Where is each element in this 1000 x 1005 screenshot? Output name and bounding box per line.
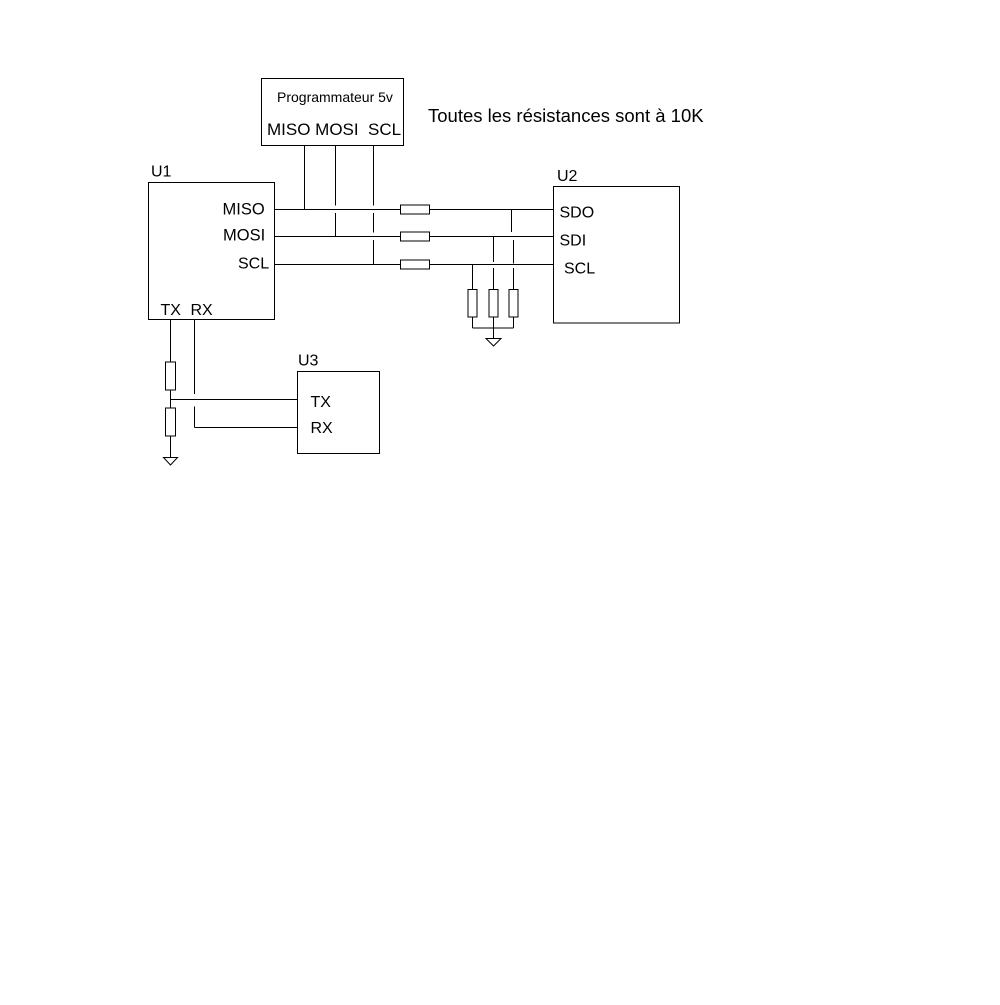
svg-text:RX: RX [191, 302, 214, 319]
wire ground stem (pullup group) [493, 328, 495, 339]
wire R4 to TX junction [170, 390, 172, 400]
resistor R1h body (MISO line) [401, 205, 430, 214]
wire TX net to U3 [171, 399, 298, 401]
IC U2 box [554, 187, 680, 324]
svg-text:SDI: SDI [560, 233, 587, 250]
resistor R2h body (MOSI line) [401, 232, 430, 241]
programmer P1 box [262, 79, 404, 146]
IC U3 box [298, 372, 380, 454]
wire pullup R2v feed from SDI net [493, 237, 495, 263]
resistor R3h body (SCL line) [401, 260, 430, 269]
wire MOSI net: R2h to U2 SDI pin [430, 236, 554, 238]
ground symbol (R5) [164, 458, 178, 466]
svg-text:MISO MOSI SCL: MISO MOSI SCL [267, 120, 401, 139]
ground symbol (pullup group) [486, 339, 501, 347]
wire R5 bottom lead [170, 436, 172, 457]
wire MISO net: U1 pin to resistor R1h [275, 209, 401, 211]
resistor R2v body [489, 290, 498, 318]
wire programmer MISO lead [304, 146, 306, 210]
wire SCL net: R3h to U2 SCL pin [430, 264, 554, 266]
wire joining resistor bottoms [473, 327, 514, 329]
wire pullup R3v feed lower segment [513, 268, 515, 290]
wire MISO net: R1h to U2 SDO pin [430, 209, 554, 211]
resistor R5 body [166, 408, 176, 436]
wire programmer SCL lead segment 3 [373, 240, 375, 265]
resistor R4 body [166, 362, 176, 390]
wire pullup R3v feed middle segment [513, 240, 515, 264]
wire programmer MOSI lead lower segment [335, 213, 337, 237]
wire pullup R2v feed lower segment [493, 268, 495, 290]
wire R2v bottom lead [493, 317, 495, 328]
resistor R3v body [509, 290, 518, 318]
svg-text:MISO: MISO [223, 201, 265, 219]
wire U1 TX lead [170, 320, 172, 363]
svg-text:SDO: SDO [560, 205, 595, 222]
svg-text:RX: RX [311, 420, 334, 437]
svg-text:Programmateur 5v: Programmateur 5v [277, 89, 393, 105]
IC U1 box [149, 183, 275, 320]
resistor R1v body [468, 290, 477, 318]
wire pullup R1v feed from SCL net [472, 265, 474, 290]
svg-text:U2: U2 [557, 168, 578, 185]
wire R1v bottom lead [472, 317, 474, 328]
svg-text:SCL: SCL [238, 256, 269, 273]
svg-text:TX: TX [161, 302, 182, 319]
wire programmer SCL lead segment 2 [373, 213, 375, 233]
wire programmer MOSI lead upper segment [335, 146, 337, 206]
wire MOSI net: U1 pin to resistor R2h [275, 236, 401, 238]
svg-text:SCL: SCL [564, 261, 595, 278]
wire RX net to U3 [195, 427, 298, 429]
wire U1 RX lead lower segment [194, 407, 196, 428]
wire R3v bottom lead [513, 317, 515, 328]
svg-text:U1: U1 [151, 164, 172, 181]
wire programmer SCL lead segment 1 [373, 146, 375, 206]
svg-text:MOSI: MOSI [223, 227, 265, 245]
svg-text:U3: U3 [298, 353, 319, 370]
wire TX junction to R5 [170, 400, 172, 409]
wire U1 RX lead upper segment [194, 320, 196, 395]
wire pullup R3v feed from MISO net (upper segment) [511, 210, 513, 233]
wire SCL net: U1 pin to resistor R3h [275, 264, 401, 266]
svg-text:Toutes les résistances sont à: Toutes les résistances sont à 10K [428, 105, 704, 126]
svg-text:TX: TX [311, 394, 332, 411]
